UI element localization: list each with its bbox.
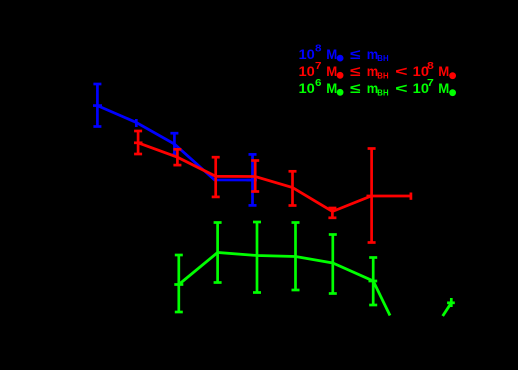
green G4 y-error bar	[292, 223, 300, 291]
red R6 y-error bar	[328, 208, 336, 218]
svg-text:M: M	[438, 80, 449, 96]
blue P5 y-error bar	[249, 154, 257, 205]
red R5 y-error bar	[289, 171, 297, 205]
svg-text:10: 10	[299, 46, 316, 62]
svg-text:M: M	[326, 80, 337, 96]
svg-text:<: <	[395, 63, 408, 79]
green G8 y-error bar	[450, 298, 453, 307]
green G5 y-error bar	[329, 235, 337, 294]
svg-text:7: 7	[315, 61, 322, 72]
red R1 y-error bar	[134, 131, 142, 154]
blue P1 y-error bar	[93, 84, 101, 127]
green G6 y-error bar	[369, 258, 377, 306]
svg-text:BH: BH	[377, 53, 388, 63]
svg-text:<: <	[395, 80, 408, 96]
svg-text:BH: BH	[377, 70, 388, 80]
svg-text:7: 7	[427, 78, 434, 89]
legend line 3 (green): 10^6 Msun <= mBH < 10^7 Msun	[299, 78, 457, 97]
red series line	[138, 143, 372, 212]
green G3 y-error bar	[253, 222, 261, 293]
svg-text:10: 10	[299, 80, 316, 96]
red R3 y-error bar	[212, 157, 220, 197]
green G1 y-error bar	[175, 255, 183, 312]
green clipped segment to off-plot point	[443, 303, 452, 316]
green G2 y-error bar	[214, 223, 222, 283]
svg-text:8: 8	[427, 61, 434, 72]
svg-text:M: M	[438, 63, 449, 79]
svg-text:M: M	[326, 63, 337, 79]
svg-text:M: M	[326, 46, 337, 62]
legend line 1 (blue): 10^8 Msun <= mBH	[299, 44, 389, 64]
blue P5 x-error bar	[247, 179, 258, 182]
svg-text:≤: ≤	[350, 46, 361, 62]
red R4 y-error bar	[251, 161, 259, 192]
blue P3 y-error bar	[170, 133, 178, 155]
red R2 y-error bar	[173, 149, 181, 165]
red R7 y-error bar	[368, 149, 376, 243]
blue P2 y-error bar	[135, 119, 138, 127]
red R1 x-error bar	[134, 141, 143, 144]
legend line 2 (red): 10^7 Msun <= mBH < 10^8 Msun	[299, 61, 457, 80]
svg-text:6: 6	[315, 78, 322, 89]
green G6 x-error bar	[369, 280, 378, 283]
blue series line	[97, 106, 252, 180]
svg-text:10: 10	[299, 63, 316, 79]
green G8 x-error bar	[447, 301, 455, 304]
green series line	[179, 253, 390, 316]
svg-text:8: 8	[315, 44, 322, 55]
green G1 x-error bar	[174, 283, 183, 286]
svg-text:BH: BH	[377, 87, 388, 97]
blue P1 x-error bar	[93, 104, 102, 107]
svg-text:≤: ≤	[350, 63, 361, 79]
red R7 x-error bar	[367, 193, 411, 200]
svg-text:≤: ≤	[350, 80, 361, 96]
